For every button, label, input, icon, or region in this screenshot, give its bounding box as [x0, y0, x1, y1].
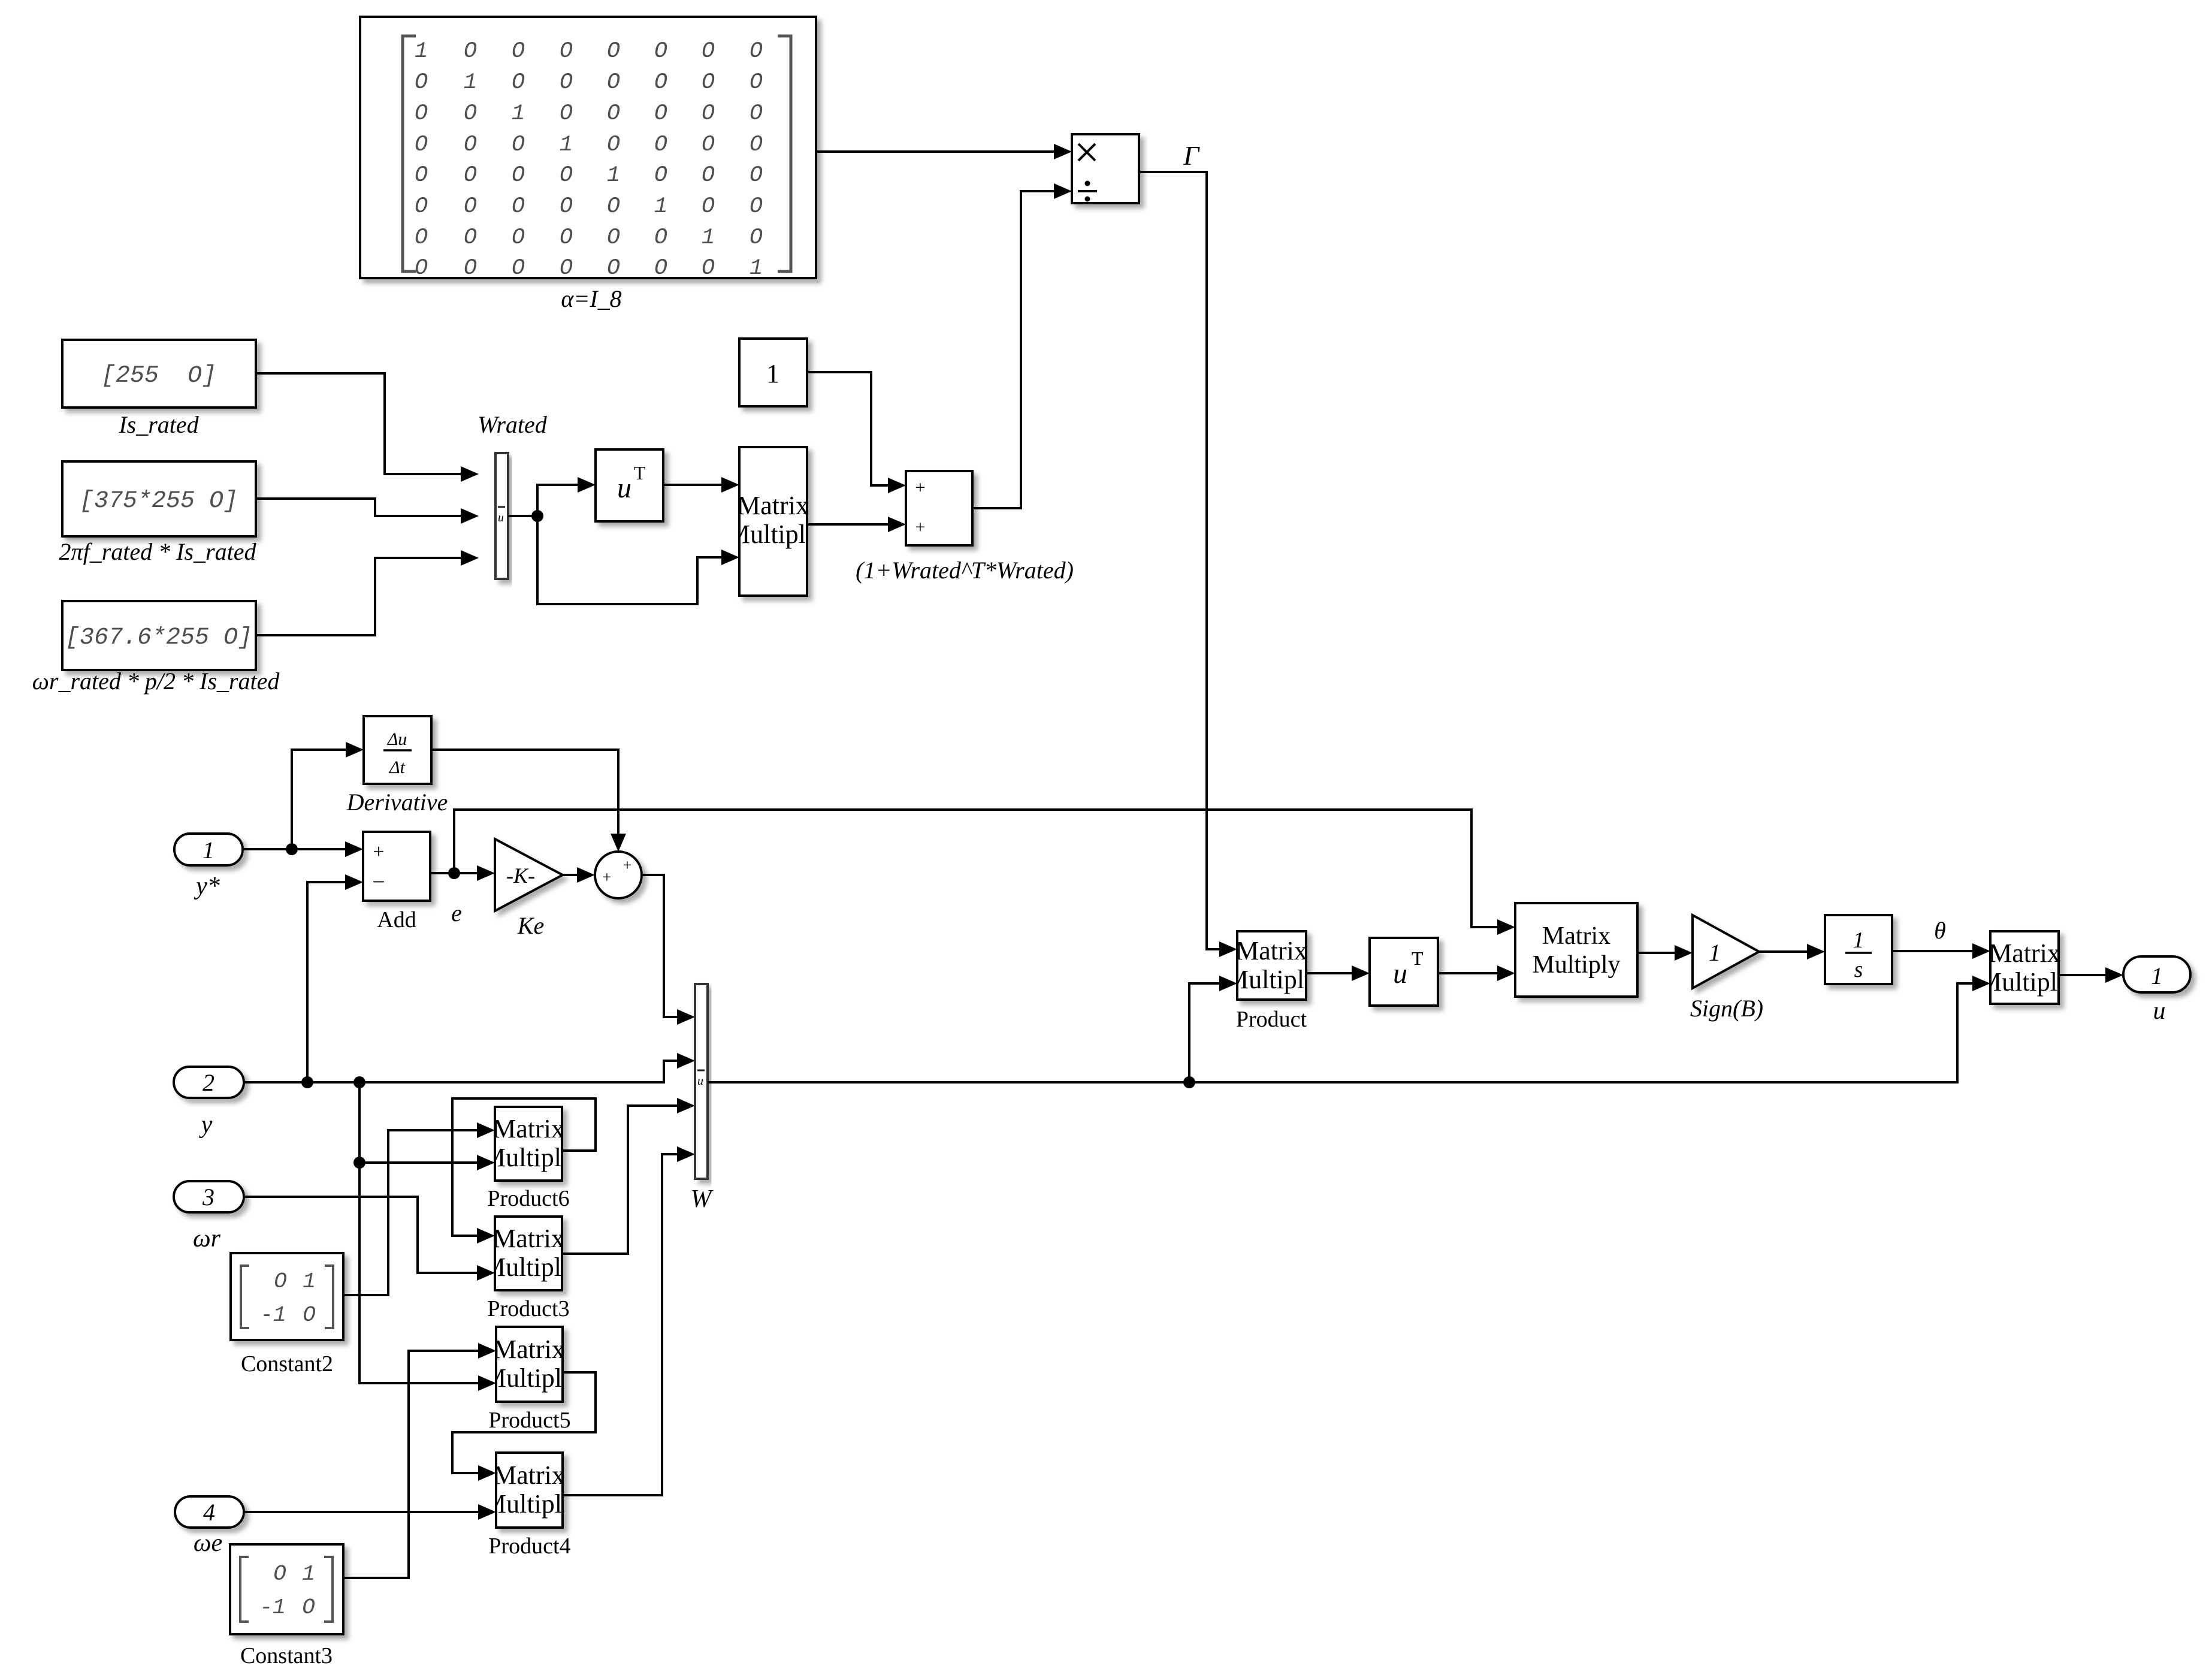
svg-text:Product6: Product6 [487, 1186, 569, 1211]
svg-text:[255 O]: [255 O] [101, 363, 216, 390]
mux Wrated [478, 411, 548, 579]
svg-text:[375*255 O]: [375*255 O] [80, 488, 238, 515]
svg-text:-K-: -K- [506, 864, 535, 888]
svg-text:Matrix: Matrix [1989, 938, 2060, 968]
svg-text:1: 1 [654, 194, 667, 219]
svg-text:O: O [750, 39, 763, 64]
svg-text:Matrix: Matrix [737, 491, 809, 520]
svg-text:+: + [915, 517, 926, 537]
svg-text:O: O [654, 101, 667, 126]
svg-text:Product: Product [1236, 1007, 1307, 1032]
svg-text:y: y [199, 1111, 213, 1139]
svg-text:O: O [415, 225, 428, 250]
svg-text:O: O [415, 194, 428, 219]
svg-text:O: O [607, 194, 620, 219]
svg-text:O: O [702, 256, 715, 281]
svg-text:3: 3 [202, 1184, 214, 1211]
svg-text:Add: Add [377, 907, 416, 932]
svg-text:O: O [512, 225, 525, 250]
svg-text:O: O [702, 163, 715, 188]
product gamma (multiply-divide) [1072, 134, 1139, 203]
svg-text:O: O [607, 101, 620, 126]
svg-text:Γ: Γ [1183, 140, 1200, 171]
svg-text:α=I_8: α=I_8 [561, 285, 621, 312]
svg-text:Constant3: Constant3 [240, 1643, 333, 1666]
sum circle [595, 852, 642, 898]
derivative block du/dt [346, 716, 448, 816]
svg-text:e: e [451, 900, 462, 926]
svg-text:O: O [654, 256, 667, 281]
svg-text:Δu: Δu [387, 729, 407, 749]
svg-text:Product3: Product3 [487, 1296, 569, 1321]
inport 3 wr [174, 1181, 244, 1252]
svg-text:O: O [415, 132, 428, 158]
wire W junction up to Product in2 [1189, 983, 1220, 1082]
gain Sign(B) [1690, 915, 1763, 1022]
svg-text:u: u [1393, 958, 1407, 989]
wire sum circle to mux W in1 [642, 875, 678, 1017]
svg-text:+: + [915, 478, 926, 497]
svg-text:O: O [273, 1562, 286, 1586]
svg-text:ωr: ωr [193, 1225, 221, 1252]
svg-text:O: O [702, 132, 715, 158]
svg-text:O: O [750, 163, 763, 188]
svg-text:O: O [654, 39, 667, 64]
svg-text:1: 1 [750, 256, 763, 281]
svg-text:O: O [512, 163, 525, 188]
wire Product to uT2 [1306, 972, 1353, 974]
wire W output long line to final Matrix Multiply in2 [708, 983, 1974, 1082]
constant Constant3 [230, 1544, 343, 1666]
svg-text:u: u [697, 1075, 703, 1088]
product Matrix Multiply (Wrated^T*Wrated) [727, 447, 819, 596]
constant 2pif_rated*Is_rated [59, 461, 257, 565]
svg-text:O: O [464, 256, 477, 281]
svg-text:O: O [702, 101, 715, 126]
wire Constant2 to Product6 in1 [343, 1130, 478, 1295]
svg-text:Wrated: Wrated [478, 411, 548, 438]
wire Ke to sum circle [563, 874, 578, 876]
wire gamma output down to Product in1 [1139, 172, 1220, 949]
outport 1 u [2123, 956, 2190, 1025]
wire 367.6 to mux Wrated in3 [256, 558, 462, 635]
svg-text:Ke: Ke [517, 912, 544, 939]
svg-text:1: 1 [512, 101, 525, 126]
svg-text:1: 1 [1709, 939, 1721, 966]
svg-text:O: O [560, 39, 573, 64]
mux W [691, 984, 714, 1213]
wire Derivative to sum circle top [431, 750, 618, 835]
svg-text:Multiply: Multiply [1225, 965, 1317, 994]
svg-text:O: O [750, 225, 763, 250]
wire e branch long line to big Matrix Multiply in1 [454, 810, 1498, 927]
wire integrator theta to final Matrix Multiply in1 [1892, 950, 1974, 952]
wire Sign(B) to integrator [1759, 950, 1808, 953]
constant wr_rated*p/2*Is_rated [32, 601, 280, 695]
svg-text:O: O [464, 194, 477, 219]
svg-text:u: u [2153, 997, 2166, 1025]
svg-text:O: O [512, 256, 525, 281]
svg-text:(1+Wrated^T*Wrated): (1+Wrated^T*Wrated) [856, 557, 1074, 584]
svg-text:Is_rated: Is_rated [118, 411, 199, 438]
product Product4 [483, 1453, 575, 1559]
svg-text:O: O [464, 101, 477, 126]
wire junction up to uT [537, 485, 579, 516]
svg-text:Matrix: Matrix [492, 1224, 564, 1253]
svg-text:u: u [617, 472, 631, 504]
sum (1+Wrated^T*Wrated) [856, 471, 1074, 584]
product final Matrix Multiply [1978, 931, 2071, 1004]
wire sum to product gamma in2 [972, 191, 1055, 508]
svg-text:1: 1 [303, 1269, 316, 1294]
svg-text:-1: -1 [259, 1595, 285, 1620]
wire 2pif to mux Wrated in2 [256, 499, 462, 516]
svg-text:O: O [702, 194, 715, 219]
svg-text:O: O [607, 225, 620, 250]
constant Is_rated [62, 340, 256, 438]
svg-text:-1: -1 [260, 1303, 286, 1327]
wire Matrix Multiply to sum in2 [807, 523, 889, 526]
svg-text:O: O [750, 101, 763, 126]
gain Ke [495, 839, 563, 939]
svg-text:O: O [560, 194, 573, 219]
svg-text:s: s [1854, 957, 1863, 982]
svg-text:+: + [603, 868, 612, 886]
wire wr to Product3 in2 [244, 1197, 478, 1273]
svg-text:O: O [607, 39, 620, 64]
product big Matrix Multiply [1515, 903, 1637, 997]
wire constant 1 to sum in1 [807, 372, 889, 485]
svg-text:O: O [303, 1303, 316, 1327]
svg-text:2: 2 [203, 1069, 214, 1096]
svg-text:[367.6*255 O]: [367.6*255 O] [65, 624, 252, 651]
svg-text:1: 1 [203, 837, 214, 864]
wire junction down to Matrix Multiply in2 [537, 516, 723, 604]
svg-text:O: O [560, 256, 573, 281]
product Product5 [483, 1327, 575, 1433]
svg-text:1: 1 [464, 70, 477, 95]
constant Constant2 [231, 1253, 343, 1377]
wire y branch down to Product6 in2 and Product5 in2 [359, 1082, 479, 1383]
wire mux Wrated output with junction [508, 515, 537, 517]
wire Product5 out loop to Product4 in1 [452, 1372, 596, 1473]
svg-text:ωr_rated * p/2 * Is_rated: ωr_rated * p/2 * Is_rated [32, 668, 280, 695]
svg-text:Multiply: Multiply [727, 520, 819, 549]
svg-text:Multiply: Multiply [1532, 951, 1620, 979]
svg-text:1: 1 [302, 1562, 315, 1586]
svg-text:1: 1 [702, 225, 715, 250]
product Product [1225, 931, 1317, 1032]
svg-text:O: O [415, 101, 428, 126]
svg-text:O: O [702, 70, 715, 95]
wire uT2 to big Matrix Multiply in2 [1438, 972, 1498, 974]
svg-text:y*: y* [194, 873, 220, 900]
svg-text:O: O [415, 256, 428, 281]
svg-text:1: 1 [415, 39, 428, 64]
wire Is_rated to mux Wrated in1 [256, 373, 462, 474]
svg-text:Matrix: Matrix [493, 1335, 565, 1364]
product Product3 [482, 1217, 575, 1321]
svg-text:O: O [750, 132, 763, 158]
svg-text:O: O [512, 194, 525, 219]
wire y line to mux W in2 with junctions [244, 1061, 678, 1082]
svg-text:O: O [607, 132, 620, 158]
wire y* to Add in1 with junction [243, 848, 346, 850]
svg-text:Constant2: Constant2 [241, 1351, 333, 1377]
svg-text:Product4: Product4 [488, 1534, 570, 1559]
svg-text:O: O [415, 163, 428, 188]
sum Add [363, 832, 430, 932]
integrator 1/s [1825, 915, 1892, 984]
wire Constant3 to Product5 in1 [343, 1351, 479, 1578]
svg-text:O: O [654, 70, 667, 95]
math function uT (transpose) [596, 449, 663, 521]
svg-text:O: O [560, 70, 573, 95]
inport 2 y [174, 1067, 244, 1139]
svg-text:O: O [512, 70, 525, 95]
math function uT2 (transpose) [1370, 938, 1438, 1006]
svg-text:O: O [654, 163, 667, 188]
svg-text:1: 1 [2151, 962, 2163, 989]
inport 1 y* [174, 834, 243, 900]
svg-text:O: O [560, 101, 573, 126]
svg-text:O: O [464, 225, 477, 250]
svg-text:Matrix: Matrix [1235, 936, 1307, 965]
svg-text:1: 1 [766, 359, 779, 388]
svg-text:O: O [654, 225, 667, 250]
wire we to Product4 in2 [244, 1511, 479, 1513]
svg-text:T: T [1412, 947, 1424, 969]
svg-text:O: O [274, 1269, 287, 1294]
svg-text:1: 1 [560, 132, 573, 158]
wire y* junction up to Derivative [292, 750, 347, 849]
wire final Matrix Multiply to outport u [2059, 974, 2107, 976]
product Product6 [482, 1107, 575, 1211]
wire big Matrix Multiply to gain Sign(B) [1637, 952, 1676, 954]
svg-text:O: O [560, 225, 573, 250]
svg-text:1: 1 [1853, 928, 1865, 953]
svg-text:O: O [607, 256, 620, 281]
svg-text:O: O [464, 163, 477, 188]
svg-text:+: + [373, 841, 384, 863]
svg-text:Multiply: Multiply [482, 1143, 575, 1172]
constant 1 [739, 339, 807, 406]
svg-text:Δt: Δt [389, 757, 406, 777]
svg-text:4: 4 [203, 1499, 215, 1526]
svg-text:O: O [464, 132, 477, 158]
svg-text:Sign(B): Sign(B) [1690, 995, 1763, 1022]
svg-text:O: O [607, 70, 620, 95]
svg-text:O: O [702, 39, 715, 64]
wire Product6 out loop to Product3 in1 [452, 1098, 596, 1236]
svg-text:Derivative: Derivative [346, 789, 448, 816]
constant matrix a=I_8 [360, 17, 816, 312]
svg-text:ωe: ωe [194, 1529, 222, 1557]
svg-text:Multiply: Multiply [1978, 967, 2071, 997]
wire Add out to gain Ke with node e [430, 872, 478, 874]
svg-text:O: O [560, 163, 573, 188]
svg-text:O: O [750, 70, 763, 95]
svg-text:O: O [302, 1595, 315, 1620]
svg-text:Matrix: Matrix [493, 1460, 565, 1490]
svg-text:T: T [634, 462, 646, 484]
svg-text:Product5: Product5 [488, 1408, 570, 1433]
wire y junction up to Add in2 [307, 882, 346, 1082]
svg-text:Matrix: Matrix [1542, 922, 1610, 950]
svg-text:−: − [372, 870, 385, 895]
svg-text:O: O [750, 194, 763, 219]
inport 4 we [175, 1496, 244, 1557]
wire matrix to product gamma [816, 150, 1055, 153]
wire uT to Matrix Multiply in1 [663, 484, 723, 486]
svg-text:θ: θ [1934, 917, 1946, 944]
svg-text:u: u [498, 511, 504, 524]
svg-text:O: O [512, 132, 525, 158]
svg-text:W: W [691, 1185, 714, 1213]
svg-text:+: + [623, 856, 632, 874]
svg-text:Multiply: Multiply [482, 1252, 575, 1282]
svg-text:1: 1 [607, 163, 620, 188]
svg-text:O: O [464, 39, 477, 64]
svg-text:O: O [415, 70, 428, 95]
wire Product3 out to mux W in3 [562, 1106, 678, 1254]
wire Product4 out up to mux W in4 [563, 1154, 678, 1495]
svg-text:Matrix: Matrix [492, 1114, 564, 1143]
svg-text:O: O [512, 39, 525, 64]
svg-text:O: O [654, 132, 667, 158]
svg-text:2πf_rated * Is_rated: 2πf_rated * Is_rated [59, 538, 257, 565]
